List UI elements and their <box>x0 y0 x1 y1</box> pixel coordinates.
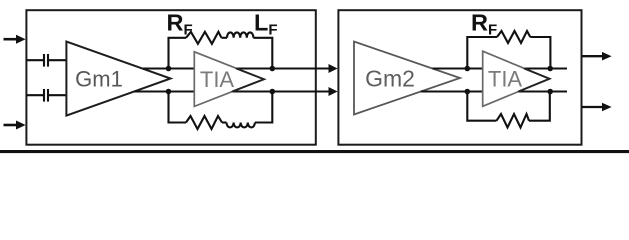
svg-text:TIA: TIA <box>200 67 235 92</box>
svg-text:RF: RF <box>471 10 497 39</box>
svg-text:Gm2: Gm2 <box>365 66 415 92</box>
svg-text:RF: RF <box>167 10 193 39</box>
svg-text:LF: LF <box>254 10 278 39</box>
svg-text:Gm1: Gm1 <box>75 67 123 92</box>
svg-text:TIA: TIA <box>488 67 523 92</box>
